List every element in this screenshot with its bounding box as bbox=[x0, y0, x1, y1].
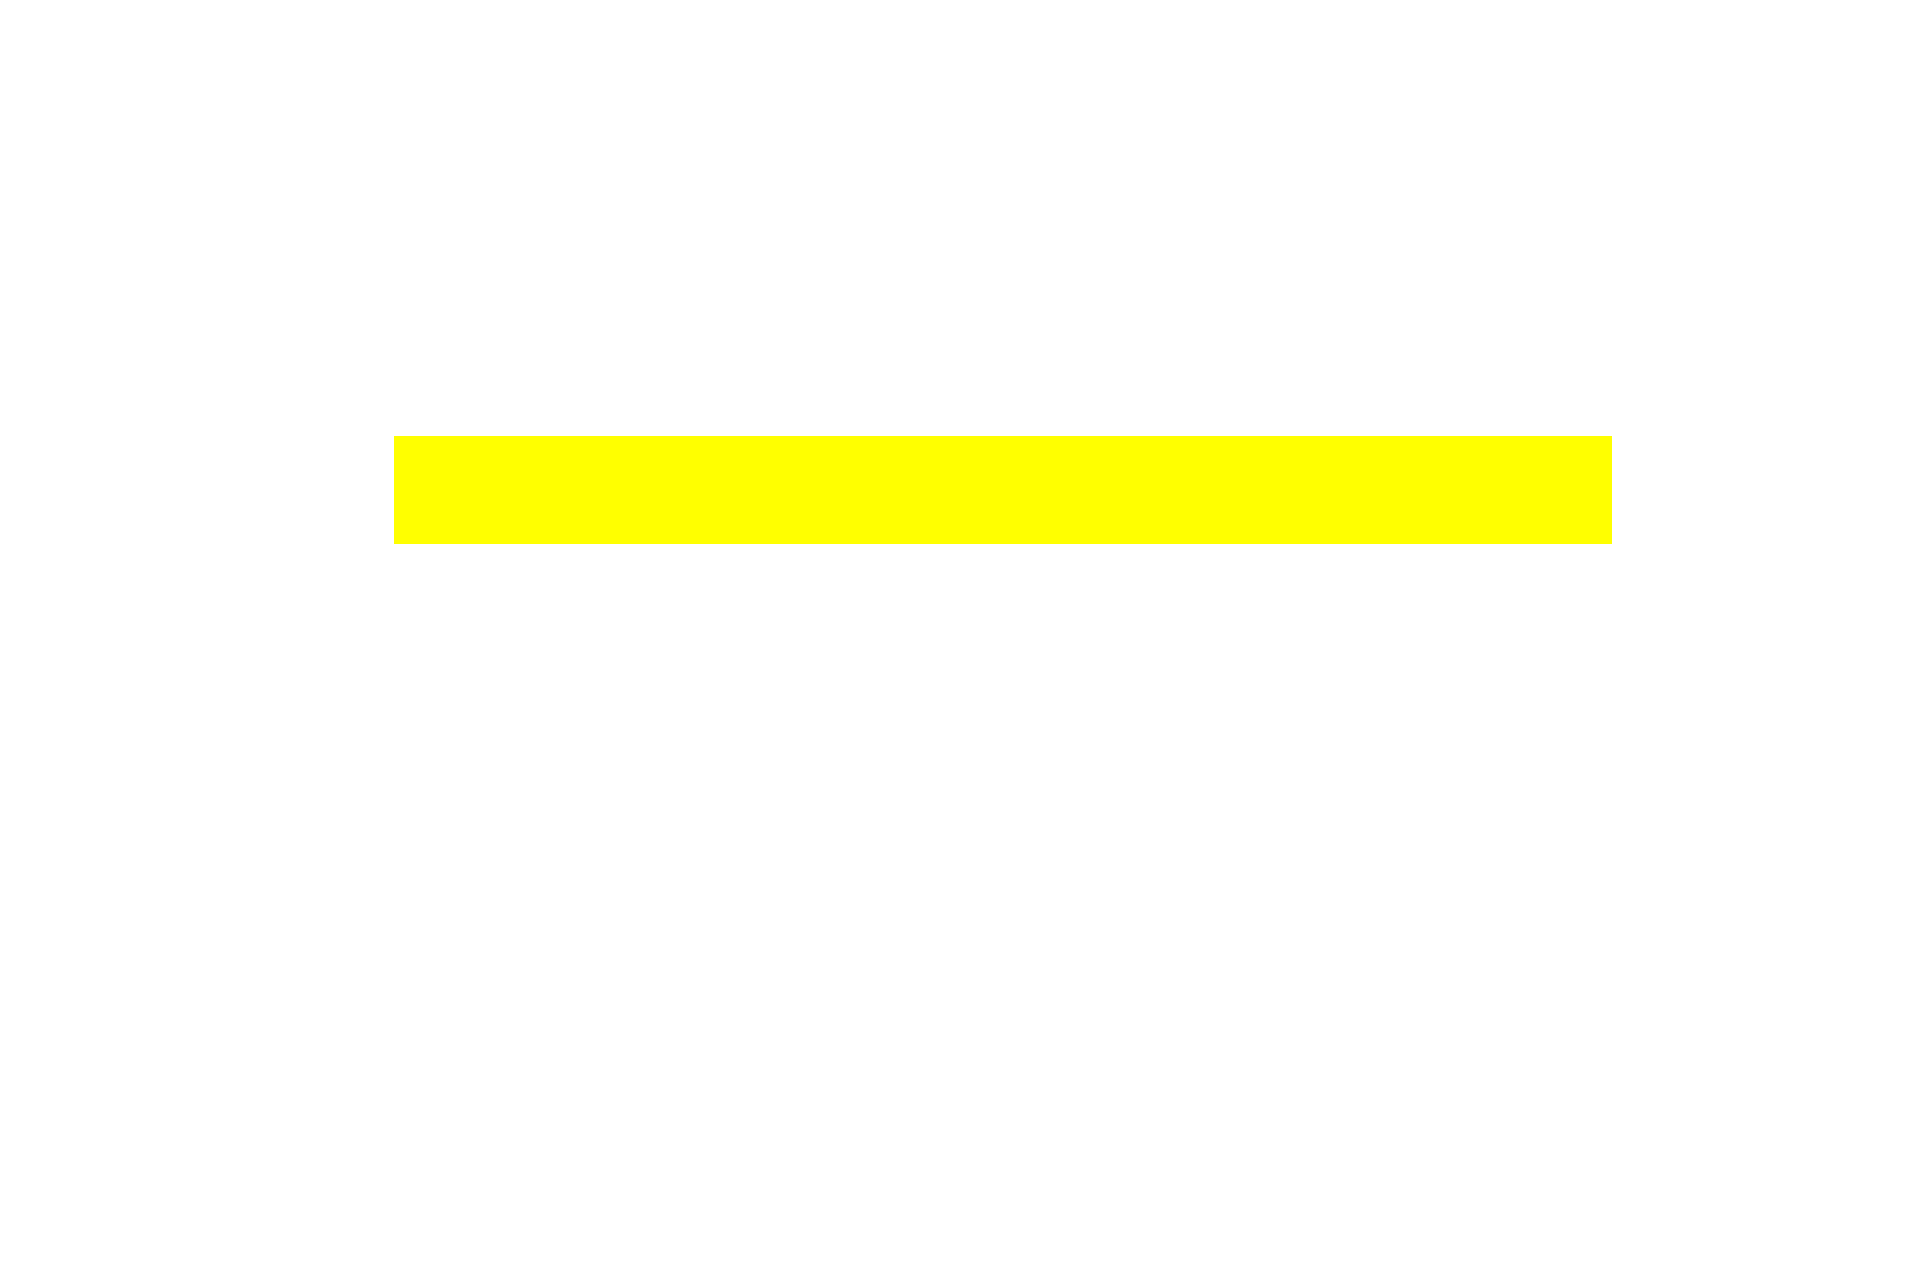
yellow highlight bar bbox=[394, 436, 1612, 544]
